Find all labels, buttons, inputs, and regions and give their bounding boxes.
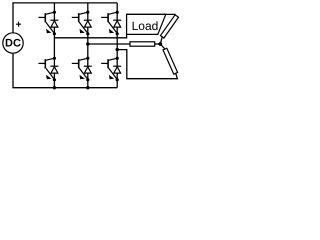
node: phase B tap junction dot <box>86 42 89 45</box>
wire: DC source top to top rail <box>12 3 14 33</box>
transistor Q2 + diode D2 (leg 3 bottom) <box>101 57 121 82</box>
resistor R2 (horizontal, phase B) <box>130 42 155 46</box>
top rail (DC+ bus) <box>12 2 117 4</box>
node: bottom rail leg 1 junction dot <box>53 86 56 89</box>
phase C line from leg 3 <box>117 50 177 79</box>
bottom rail (DC- bus) <box>12 87 117 89</box>
leg 3 vertical wire <box>116 3 118 88</box>
wire: DC source bottom to bottom rail <box>12 53 14 87</box>
background <box>0 0 180 92</box>
svg-text:+: + <box>16 20 22 31</box>
wire: star point to resistor R3 (lower) <box>160 44 165 49</box>
phase B line from leg 2 to resistor R2 <box>88 43 130 45</box>
svg-text:Load: Load <box>132 19 159 33</box>
node: phase C tap junction dot <box>116 48 119 51</box>
transistor Q3 + diode D3 (leg 2 top) <box>72 11 92 36</box>
wire: resistor R2 to star point <box>155 43 161 45</box>
resistor R3 (lower diagonal, phase C) <box>163 48 178 74</box>
node: bottom rail leg 2 junction dot <box>86 86 89 89</box>
transistor Q1 + diode D1 (leg 1 top) <box>38 11 58 36</box>
Load label box <box>127 14 166 34</box>
transistor Q6 + diode D6 (leg 2 bottom) <box>72 57 92 82</box>
leg 2 vertical wire <box>87 3 89 88</box>
phase A line from leg 1 <box>54 14 175 37</box>
svg-text:DC: DC <box>5 37 21 49</box>
wire: star point to resistor R1 (upper) <box>160 37 162 44</box>
node: star point junction dot <box>158 42 162 46</box>
resistor R1 (upper diagonal, phase A) <box>160 15 178 38</box>
transistor Q5 + diode D5 (leg 3 top) <box>101 11 121 36</box>
leg 1 vertical wire <box>53 3 55 88</box>
transistor Q4 + diode D4 (leg 1 bottom) <box>38 57 58 82</box>
DC source V1 circle <box>3 33 23 53</box>
